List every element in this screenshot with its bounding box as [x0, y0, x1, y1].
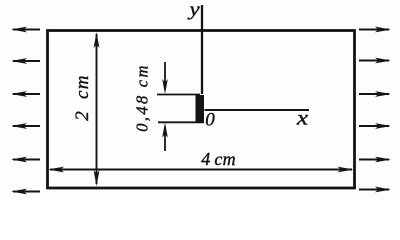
svg-text:0,48cm: 0,48cm — [132, 63, 151, 132]
dimension 0,48 cm lower arrow — [162, 123, 168, 152]
left tension arrow 1 — [11, 27, 40, 33]
svg-text:2cm: 2cm — [72, 74, 93, 121]
left tension arrow 4 — [11, 123, 40, 129]
dimension 0,48 cm upper arrow — [162, 62, 168, 94]
left tension arrow 6 — [11, 189, 40, 195]
left tension arrow 3 — [11, 91, 40, 97]
crack (filled slit) — [196, 95, 205, 123]
svg-text:y: y — [187, 0, 200, 20]
extension line top of crack — [157, 94, 200, 96]
right tension arrow 4 — [359, 123, 391, 129]
svg-text:0: 0 — [205, 110, 215, 131]
svg-text:x: x — [296, 106, 309, 130]
x axis — [205, 109, 310, 111]
dimension 2 cm line — [94, 32, 100, 186]
right tension arrow 3 — [359, 91, 391, 97]
right tension arrow 2 — [359, 58, 391, 64]
svg-text:4cm: 4cm — [201, 149, 236, 169]
plate border — [48, 31, 355, 189]
extension line bottom of crack — [158, 121, 204, 123]
right tension arrow 6 — [359, 187, 391, 193]
left tension arrow 5 — [11, 157, 40, 163]
y axis — [201, 5, 203, 94]
right tension arrow 5 — [359, 157, 391, 163]
dimension 4 cm line — [48, 167, 354, 173]
left tension arrow 2 — [11, 58, 40, 64]
right tension arrow 1 — [359, 27, 391, 33]
